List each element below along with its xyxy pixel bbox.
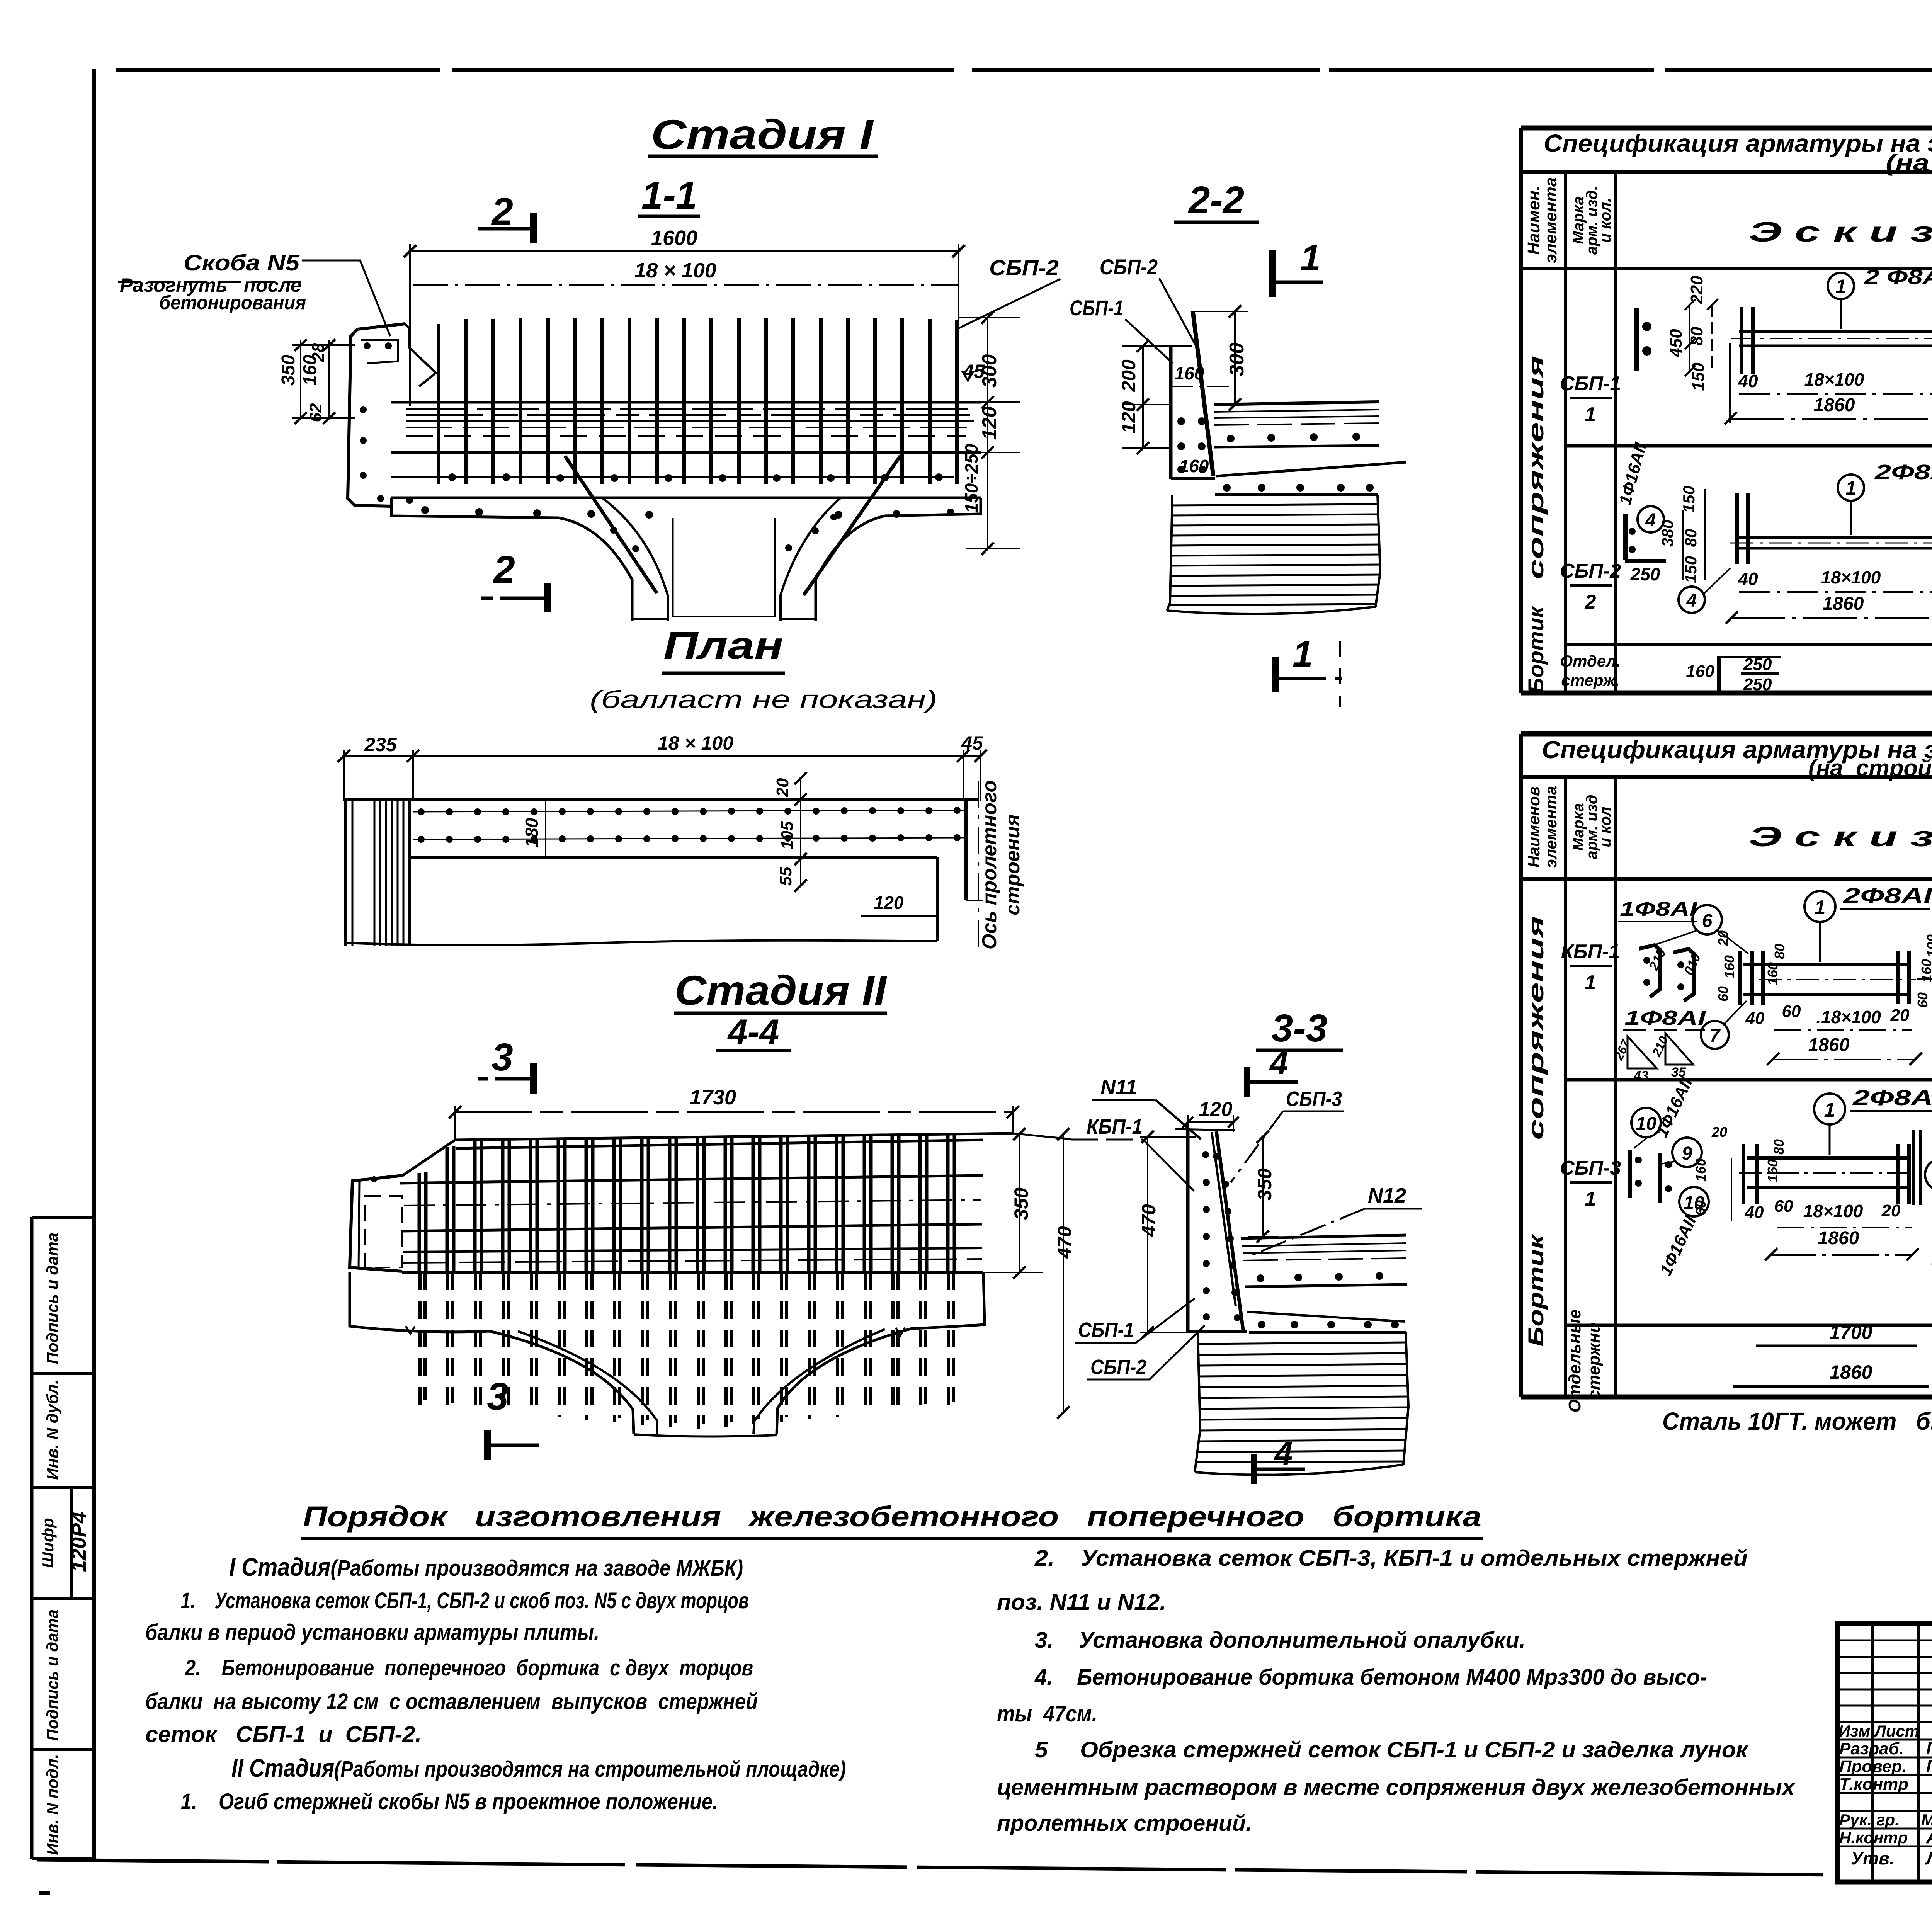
svg-text:6: 6 [1702, 911, 1713, 931]
svg-text:1Ф16АII: 1Ф16АII [1616, 441, 1650, 507]
svg-text:балки в период установки армат: балки в период установки арматуры плиты. [145, 1620, 599, 1645]
svg-text:СБП-1: СБП-1 [1560, 373, 1621, 395]
svg-text:160: 160 [1179, 456, 1209, 476]
bottom instructions column 2 [997, 1546, 1796, 1836]
verticals [1519, 128, 1523, 693]
svg-text:бетонирования: бетонирования [159, 292, 306, 313]
svg-text:Стадия I: Стадия I [651, 111, 874, 158]
svg-text:СБП-2: СБП-2 [989, 255, 1059, 280]
svg-text:160: 160 [1686, 662, 1714, 681]
svg-text:Сталь 10ГТ. может быть заме: Сталь 10ГТ. может быть заменена сталью 2… [1662, 1407, 1932, 1435]
svg-text:Спецификация арматуры на элеме: Спецификация арматуры на элемент, изгота… [1544, 129, 1932, 157]
table 1 sketch SBP-1 [1636, 265, 1932, 424]
section 3-3 drawing [1071, 1007, 1422, 1484]
svg-text:строения: строения [1002, 814, 1024, 915]
left margin stamp strip [32, 1217, 94, 1859]
svg-text:2Ф8АI: 2Ф8АI [1843, 883, 1932, 908]
svg-text:Наименов: Наименов [1525, 786, 1543, 867]
table 1 sketch single bars row [1686, 655, 1781, 694]
svg-text:ты 47см.: ты 47см. [997, 1701, 1097, 1726]
svg-text:1: 1 [1585, 971, 1596, 994]
plan strip drawing (4-4) [338, 732, 1024, 954]
bottom instructions column 1 [145, 1553, 846, 1814]
svg-text:55: 55 [776, 867, 795, 886]
svg-text:20: 20 [1890, 1006, 1910, 1025]
svg-text:2. Бетонирование поперечно: 2. Бетонирование поперечного бортика с д… [185, 1655, 753, 1681]
svg-text:Отдел.: Отдел. [1560, 652, 1621, 670]
svg-text:150: 150 [1680, 486, 1698, 513]
svg-text:СБП-1: СБП-1 [1070, 296, 1124, 320]
svg-text:210: 210 [1646, 947, 1669, 973]
svg-text:4. Бетонирование бортика бе: 4. Бетонирование бортика бетоном М400 Мр… [1034, 1665, 1707, 1690]
horizontal wires [456, 1140, 983, 1148]
svg-text:220: 220 [1687, 276, 1706, 304]
svg-text:380: 380 [1658, 520, 1677, 547]
svg-text:7: 7 [1710, 1026, 1721, 1046]
title block [1837, 1624, 1932, 1882]
svg-text:1Ф8АI: 1Ф8АI [1624, 1007, 1706, 1029]
corner tick bottom left [39, 1891, 50, 1895]
svg-text:СБП-2: СБП-2 [1100, 255, 1158, 279]
svg-text:18×100: 18×100 [1803, 1201, 1863, 1221]
svg-text:120Р4: 120Р4 [67, 1512, 90, 1572]
svg-text:60: 60 [1693, 1200, 1709, 1216]
slab layers right [1214, 402, 1379, 405]
table 2 header texts [1525, 736, 1932, 879]
svg-text:160: 160 [1721, 955, 1737, 978]
stage II axonometric drawing [350, 1036, 1075, 1429]
svg-text:Ляпустин: Ляпустин [1925, 1848, 1932, 1868]
table 2 sketch single bars [1733, 1322, 1929, 1386]
svg-text:20: 20 [1715, 930, 1731, 946]
svg-text:3-3: 3-3 [1272, 1007, 1328, 1050]
table 1 sketch SBP-2 [1616, 441, 1932, 649]
svg-text:3: 3 [492, 1036, 513, 1079]
svg-text:120: 120 [1118, 401, 1139, 434]
svg-text:Рук. гр.: Рук. гр. [1839, 1811, 1900, 1829]
svg-text:элемента: элемента [1542, 786, 1560, 868]
svg-text:20: 20 [773, 778, 792, 797]
svg-text:120: 120 [874, 893, 904, 913]
slab layers right of bortik [1241, 1235, 1406, 1238]
svg-text:40: 40 [1745, 1203, 1764, 1222]
svg-text:450: 450 [1667, 329, 1685, 358]
svg-text:4: 4 [1274, 1435, 1293, 1472]
table 2 left column labels [1524, 916, 1621, 1413]
svg-text:N12: N12 [1368, 1184, 1406, 1207]
svg-text:1600: 1600 [651, 226, 697, 250]
svg-text:Изм: Изм [1838, 1722, 1870, 1740]
Plan heading [590, 624, 937, 713]
svg-text:КБП-1: КБП-1 [1561, 941, 1620, 963]
svg-text:40: 40 [1738, 371, 1758, 391]
svg-text:180: 180 [522, 818, 542, 847]
bottom instructions heading [301, 1500, 1483, 1539]
svg-text:160: 160 [1175, 363, 1204, 383]
svg-text:Акулова: Акулова [1926, 1827, 1932, 1847]
svg-text:стерж.: стерж. [1561, 671, 1619, 689]
vertical double bars [419, 1133, 954, 1272]
svg-text:80: 80 [1771, 1139, 1787, 1155]
two rows of bar cross markers [418, 807, 961, 843]
svg-text:Стадия II: Стадия II [675, 967, 887, 1014]
svg-text:1Ф16АII: 1Ф16АII [1656, 1213, 1700, 1279]
top outline [455, 1133, 1013, 1140]
table 2 sketch SBP-3 [1630, 1075, 1932, 1279]
svg-text:стержни: стержни [1585, 1322, 1604, 1400]
svg-text:и кол: и кол [1597, 806, 1614, 847]
svg-text:КБП-1: КБП-1 [1087, 1115, 1143, 1138]
svg-text:1860: 1860 [1808, 1035, 1850, 1055]
svg-text:2Ф8АI: 2Ф8АI [1874, 461, 1932, 484]
svg-text:Лист: Лист [1874, 1722, 1919, 1740]
svg-text:4: 4 [1645, 510, 1656, 531]
svg-text:Бортик: Бортик [1524, 1233, 1548, 1347]
vertical bars of mesh [439, 318, 957, 484]
svg-text:1: 1 [1293, 634, 1313, 675]
svg-text:1700: 1700 [1829, 1322, 1872, 1343]
bortik shape [1186, 1130, 1190, 1332]
svg-text:1: 1 [1585, 1188, 1596, 1210]
svg-text:1. Установка сеток СБП-1, С: 1. Установка сеток СБП-1, СБП-2 и скоб п… [181, 1588, 749, 1613]
svg-text:120: 120 [1199, 1098, 1233, 1121]
svg-text:18×100: 18×100 [1804, 369, 1864, 390]
svg-text:2Ф8АI: 2Ф8АI [1852, 1085, 1932, 1110]
bottom slab outline with web [391, 498, 632, 621]
svg-text:2: 2 [1585, 591, 1596, 613]
rebar dots row [421, 473, 954, 519]
svg-text:1Ф16АII: 1Ф16АII [1652, 1075, 1696, 1140]
svg-text:200: 200 [1118, 359, 1139, 392]
svg-text:1730: 1730 [690, 1086, 736, 1109]
svg-text:80: 80 [1772, 944, 1787, 959]
svg-text:3: 3 [487, 1375, 509, 1418]
section mark 1 bottom [1272, 657, 1279, 692]
slab horizontal wires [391, 401, 981, 404]
svg-text:1: 1 [1835, 276, 1846, 297]
svg-text:II Стадия(Работы производятся: II Стадия(Работы производятся на строите… [231, 1754, 846, 1782]
svg-text:2 Ф8АI: 2 Ф8АI [1864, 265, 1932, 289]
bottom border [37, 1860, 1833, 1875]
section 1-1 drawing [118, 226, 1020, 621]
svg-text:цементным раствором в месте со: цементным раствором в месте сопряжения д… [997, 1775, 1796, 1800]
svg-text:4-4: 4-4 [727, 1012, 779, 1052]
svg-text:Э с к и з: Э с к и з [1748, 822, 1932, 852]
svg-text:470: 470 [1054, 1226, 1075, 1259]
table 1 header texts [1524, 129, 1932, 269]
svg-text:Т.контр: Т.контр [1839, 1775, 1908, 1794]
svg-text:250: 250 [1630, 564, 1660, 584]
svg-text:сопряжения: сопряжения [1524, 916, 1548, 1140]
svg-text:2: 2 [491, 190, 513, 233]
svg-text:Инв. N дубл.: Инв. N дубл. [43, 1379, 61, 1480]
svg-text:сеток СБП-1 и СБП-2.: сеток СБП-1 и СБП-2. [145, 1722, 422, 1747]
svg-text:Ось пролетного: Ось пролетного [978, 780, 1001, 949]
svg-text:Гардеев: Гардеев [1926, 1738, 1932, 1758]
Stage I heading [478, 111, 878, 612]
svg-text:СБП-3: СБП-3 [1286, 1087, 1342, 1111]
svg-text:60: 60 [1715, 986, 1731, 1002]
svg-text:350: 350 [278, 355, 299, 386]
svg-text:17Ф16АII: 17Ф16АII [1927, 1201, 1932, 1273]
svg-text:60: 60 [1782, 1002, 1801, 1021]
top border [116, 68, 1932, 72]
svg-text:Махновская: Махновская [1921, 1811, 1932, 1829]
hatched end block [374, 799, 409, 946]
bortik outline [1169, 345, 1173, 479]
svg-text:18 × 100: 18 × 100 [658, 732, 733, 754]
specification table 1 grid [1521, 128, 1932, 693]
Stage II heading [674, 967, 887, 1052]
ballast hatch below [1195, 1332, 1200, 1472]
svg-text:2-2: 2-2 [1188, 179, 1245, 222]
svg-text:Отдельные: Отдельные [1565, 1309, 1584, 1412]
svg-text:60: 60 [1774, 1197, 1793, 1216]
svg-text:и кол.: и кол. [1597, 198, 1614, 243]
svg-text:СБП-2: СБП-2 [1090, 1356, 1146, 1379]
svg-text:СБП-1: СБП-1 [1078, 1318, 1134, 1342]
svg-text:105: 105 [778, 821, 797, 850]
svg-text:150: 150 [1682, 556, 1700, 583]
svg-text:СБП-2: СБП-2 [1560, 560, 1621, 582]
svg-text:Провер.: Провер. [1839, 1757, 1906, 1776]
svg-text:Панина: Панина [1926, 1756, 1932, 1776]
svg-text:150÷250: 150÷250 [961, 444, 981, 513]
svg-text:2: 2 [493, 548, 515, 591]
svg-text:60: 60 [1915, 992, 1930, 1008]
svg-text:350: 350 [1254, 1168, 1276, 1201]
svg-text:Инв. N подл.: Инв. N подл. [43, 1754, 61, 1855]
axis label [978, 781, 979, 954]
svg-text:пролетных строений.: пролетных строений. [997, 1811, 1252, 1836]
svg-text:120: 120 [978, 407, 1001, 440]
svg-text:1: 1 [1300, 238, 1321, 279]
svg-text:1: 1 [1824, 1099, 1835, 1121]
svg-text:1860: 1860 [1818, 1228, 1859, 1249]
svg-text:элемента: элемента [1541, 177, 1560, 264]
svg-text:Скоба N5: Скоба N5 [184, 250, 300, 276]
svg-text:300: 300 [1226, 343, 1248, 376]
svg-text:.18×100: .18×100 [1816, 1007, 1881, 1027]
svg-text:62: 62 [306, 403, 325, 422]
left border [92, 69, 96, 1861]
svg-text:План: План [663, 624, 783, 667]
section 2-2 drawing [958, 179, 1406, 707]
table 1 left column labels [1524, 356, 1621, 694]
svg-text:1860: 1860 [1814, 395, 1855, 415]
svg-text:210: 210 [1649, 1034, 1671, 1059]
labels right [1013, 1133, 1071, 1139]
svg-text:сопряжения: сопряжения [1524, 356, 1548, 580]
svg-text:Подпись и дата: Подпись и дата [43, 1609, 61, 1741]
svg-text:18 × 100: 18 × 100 [634, 259, 716, 282]
svg-text:1Ф8АI: 1Ф8АI [1620, 898, 1698, 920]
table 2 sketch KBP-1 [1611, 883, 1932, 1083]
svg-text:Шифр: Шифр [39, 1518, 57, 1568]
svg-text:балки на высоту 12 см с оста: балки на высоту 12 см с оставлением выпу… [145, 1689, 758, 1714]
svg-text:1. Огиб стержней скобы N5 в: 1. Огиб стержней скобы N5 в проектное по… [181, 1789, 718, 1814]
svg-text:1: 1 [1585, 403, 1596, 426]
svg-text:100: 100 [1924, 934, 1932, 958]
svg-text:010: 010 [1681, 951, 1704, 978]
svg-text:Утв.: Утв. [1851, 1848, 1895, 1868]
svg-text:N11: N11 [1100, 1076, 1137, 1099]
svg-text:(на стройплощадке): (на стройплощадке) [1808, 755, 1932, 781]
svg-text:18×100: 18×100 [1821, 567, 1881, 587]
svg-text:Бортик: Бортик [1524, 606, 1548, 694]
left element SBP-1 of 1-1 [348, 324, 405, 506]
strip outline [345, 798, 978, 801]
ballast hatch [1167, 495, 1172, 611]
svg-text:2. Установка сеток СБП-3, К: 2. Установка сеток СБП-3, КБП-1 и отдель… [1034, 1546, 1748, 1571]
svg-text:160: 160 [1765, 1159, 1781, 1182]
diagonal strokes [565, 456, 657, 593]
svg-text:350: 350 [1010, 1187, 1032, 1220]
svg-text:1-1: 1-1 [641, 174, 697, 217]
svg-text:160: 160 [1693, 1158, 1709, 1182]
svg-text:Подпись и дата: Подпись и дата [43, 1233, 61, 1364]
svg-text:Э с к и з: Э с к и з [1748, 217, 1932, 248]
svg-text:80: 80 [1682, 529, 1700, 547]
stage II T-beam web below [350, 1272, 985, 1460]
svg-text:300: 300 [978, 354, 1001, 388]
svg-text:Н.контр: Н.контр [1839, 1829, 1908, 1847]
verticals [1519, 734, 1523, 1397]
svg-text:40: 40 [1738, 569, 1758, 589]
svg-text:4: 4 [1686, 590, 1697, 611]
left element [350, 1175, 403, 1271]
svg-text:4: 4 [1269, 1045, 1288, 1082]
svg-text:1860: 1860 [1823, 594, 1864, 614]
svg-text:СБП-3: СБП-3 [1560, 1157, 1621, 1179]
svg-text:(на заводе): (на заводе) [1886, 150, 1932, 176]
dashed bar continuations [420, 1272, 954, 1429]
svg-text:Порядок изготовления желез: Порядок изготовления железобетонного поп… [303, 1500, 1481, 1533]
svg-text:40: 40 [1745, 1009, 1765, 1028]
svg-text:I Стадия(Работы производятся н: I Стадия(Работы производятся на заводе М… [229, 1553, 743, 1581]
svg-text:поз. N11 и N12.: поз. N11 и N12. [997, 1590, 1166, 1615]
svg-text:43: 43 [1633, 1068, 1648, 1083]
svg-text:9: 9 [1682, 1143, 1692, 1164]
svg-text:470: 470 [1138, 1204, 1160, 1237]
svg-text:20: 20 [1711, 1124, 1727, 1140]
svg-text:Разраб.: Разраб. [1839, 1739, 1904, 1758]
wavy bottom break [345, 941, 937, 945]
svg-text:3. Установка дополнительной: 3. Установка дополнительной опалубки. [1035, 1628, 1526, 1653]
svg-text:20: 20 [1881, 1201, 1901, 1220]
specification table 2 grid [1521, 734, 1932, 1397]
svg-text:1: 1 [1815, 896, 1826, 919]
svg-text:235: 235 [364, 734, 397, 755]
svg-text:1860: 1860 [1829, 1361, 1872, 1383]
svg-text:5 Обрезка стержней сеток С: 5 Обрезка стержней сеток СБП-1 и СБП-2 и… [1035, 1737, 1749, 1762]
svg-text:150: 150 [1689, 362, 1708, 391]
svg-text:Наимен.: Наимен. [1524, 186, 1543, 255]
svg-text:(балласт не показан): (балласт не показан) [590, 685, 937, 713]
svg-text:1: 1 [1845, 477, 1856, 499]
